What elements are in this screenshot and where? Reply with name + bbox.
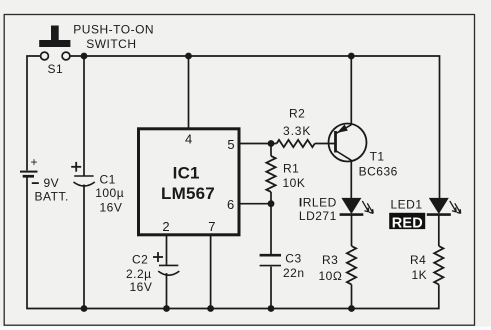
node C1 bottom rail junction xyxy=(81,305,88,312)
transistor T1 BC636 xyxy=(329,124,398,179)
wire LED1 to R4 xyxy=(438,214,440,246)
svg-text:C3: C3 xyxy=(285,252,301,266)
svg-text:10K: 10K xyxy=(283,176,306,190)
svg-text:LED1: LED1 xyxy=(391,198,423,212)
wire pin 2 to C2 xyxy=(166,236,168,265)
wire R3 to bottom rail xyxy=(351,285,353,309)
wire C3 branch upper xyxy=(270,204,272,254)
wire emitter to top rail xyxy=(350,56,352,125)
wire C3 branch lower xyxy=(270,267,272,309)
wire C2 to bottom rail xyxy=(166,273,168,309)
svg-text:T1: T1 xyxy=(370,149,385,163)
op-amp IC1 LM567 box xyxy=(139,129,240,235)
node R3 bottom rail junction xyxy=(348,305,355,312)
svg-text:9V: 9V xyxy=(44,176,60,190)
wire IRLED to R3 xyxy=(351,215,353,247)
wire pin 5 xyxy=(240,143,277,145)
wire pin 6 xyxy=(240,203,271,205)
svg-text:3.3K: 3.3K xyxy=(283,124,311,138)
svg-text:R2: R2 xyxy=(289,107,305,121)
svg-text:R1: R1 xyxy=(283,161,299,175)
svg-text:22n: 22n xyxy=(283,266,305,280)
svg-text:2.2µ: 2.2µ xyxy=(126,267,152,281)
node switch output junction xyxy=(81,53,88,60)
wire top rail xyxy=(70,56,440,198)
node pin4 top rail junction xyxy=(185,53,192,60)
wire R2 to base xyxy=(315,143,336,145)
svg-text:2: 2 xyxy=(162,219,170,234)
LED LED1 RED xyxy=(389,198,461,232)
svg-text:16V: 16V xyxy=(130,280,153,294)
svg-text:C1: C1 xyxy=(100,173,116,187)
switch S1 xyxy=(39,22,154,76)
resistor R4 1K xyxy=(410,246,443,285)
resistor R2 3.3K xyxy=(277,107,315,147)
svg-text:PUSH-TO-ON: PUSH-TO-ON xyxy=(73,22,154,36)
wire collector to IRLED xyxy=(350,160,352,198)
wire C1 branch lower xyxy=(83,185,85,309)
LED IRLED LD271 xyxy=(299,195,373,222)
node pin 6 R1 C3 junction xyxy=(268,200,275,207)
node C2 bottom rail junction xyxy=(163,305,170,312)
svg-text:1K: 1K xyxy=(412,268,428,282)
node pin 5 R1 R2 junction xyxy=(268,140,275,147)
svg-text:IRLED: IRLED xyxy=(299,195,337,209)
svg-text:16V: 16V xyxy=(100,201,123,215)
svg-text:100µ: 100µ xyxy=(95,186,124,200)
svg-text:C2: C2 xyxy=(132,253,148,267)
svg-text:LD271: LD271 xyxy=(299,209,337,223)
wire left rail xyxy=(27,56,41,170)
node C3 bottom rail junction xyxy=(268,305,275,312)
svg-text:5: 5 xyxy=(227,137,235,152)
svg-text:S1: S1 xyxy=(48,62,64,76)
svg-text:LM567: LM567 xyxy=(161,184,215,203)
svg-text:IC1: IC1 xyxy=(173,163,200,182)
svg-text:R4: R4 xyxy=(410,253,426,267)
svg-text:RED: RED xyxy=(392,215,423,231)
svg-text:7: 7 xyxy=(208,219,216,234)
wire battery to bottom rail xyxy=(27,178,439,309)
node pin 7 bottom rail junction xyxy=(207,305,214,312)
wire R1 to node xyxy=(270,144,272,156)
resistor R3 10ohm xyxy=(319,246,357,285)
capacitor C2 xyxy=(126,252,179,294)
svg-text:BC636: BC636 xyxy=(359,165,398,179)
node emitter top rail junction xyxy=(348,53,355,60)
wire C1 branch upper xyxy=(83,56,85,176)
svg-text:+: + xyxy=(31,155,39,169)
svg-text:6: 6 xyxy=(227,197,235,212)
battery 9V xyxy=(20,155,69,203)
svg-text:4: 4 xyxy=(185,131,193,146)
svg-text:BATT.: BATT. xyxy=(35,189,69,203)
wire pin 4 to top rail xyxy=(188,56,190,129)
capacitor C3 xyxy=(260,252,305,280)
wire pin 7 to bottom rail xyxy=(210,236,212,309)
resistor R1 10K xyxy=(266,156,305,192)
capacitor C1 xyxy=(71,162,124,215)
svg-text:10Ω: 10Ω xyxy=(319,269,343,283)
svg-text:SWITCH: SWITCH xyxy=(86,37,136,51)
wire R1 to pin6 node xyxy=(270,192,272,204)
svg-text:R3: R3 xyxy=(322,253,338,267)
